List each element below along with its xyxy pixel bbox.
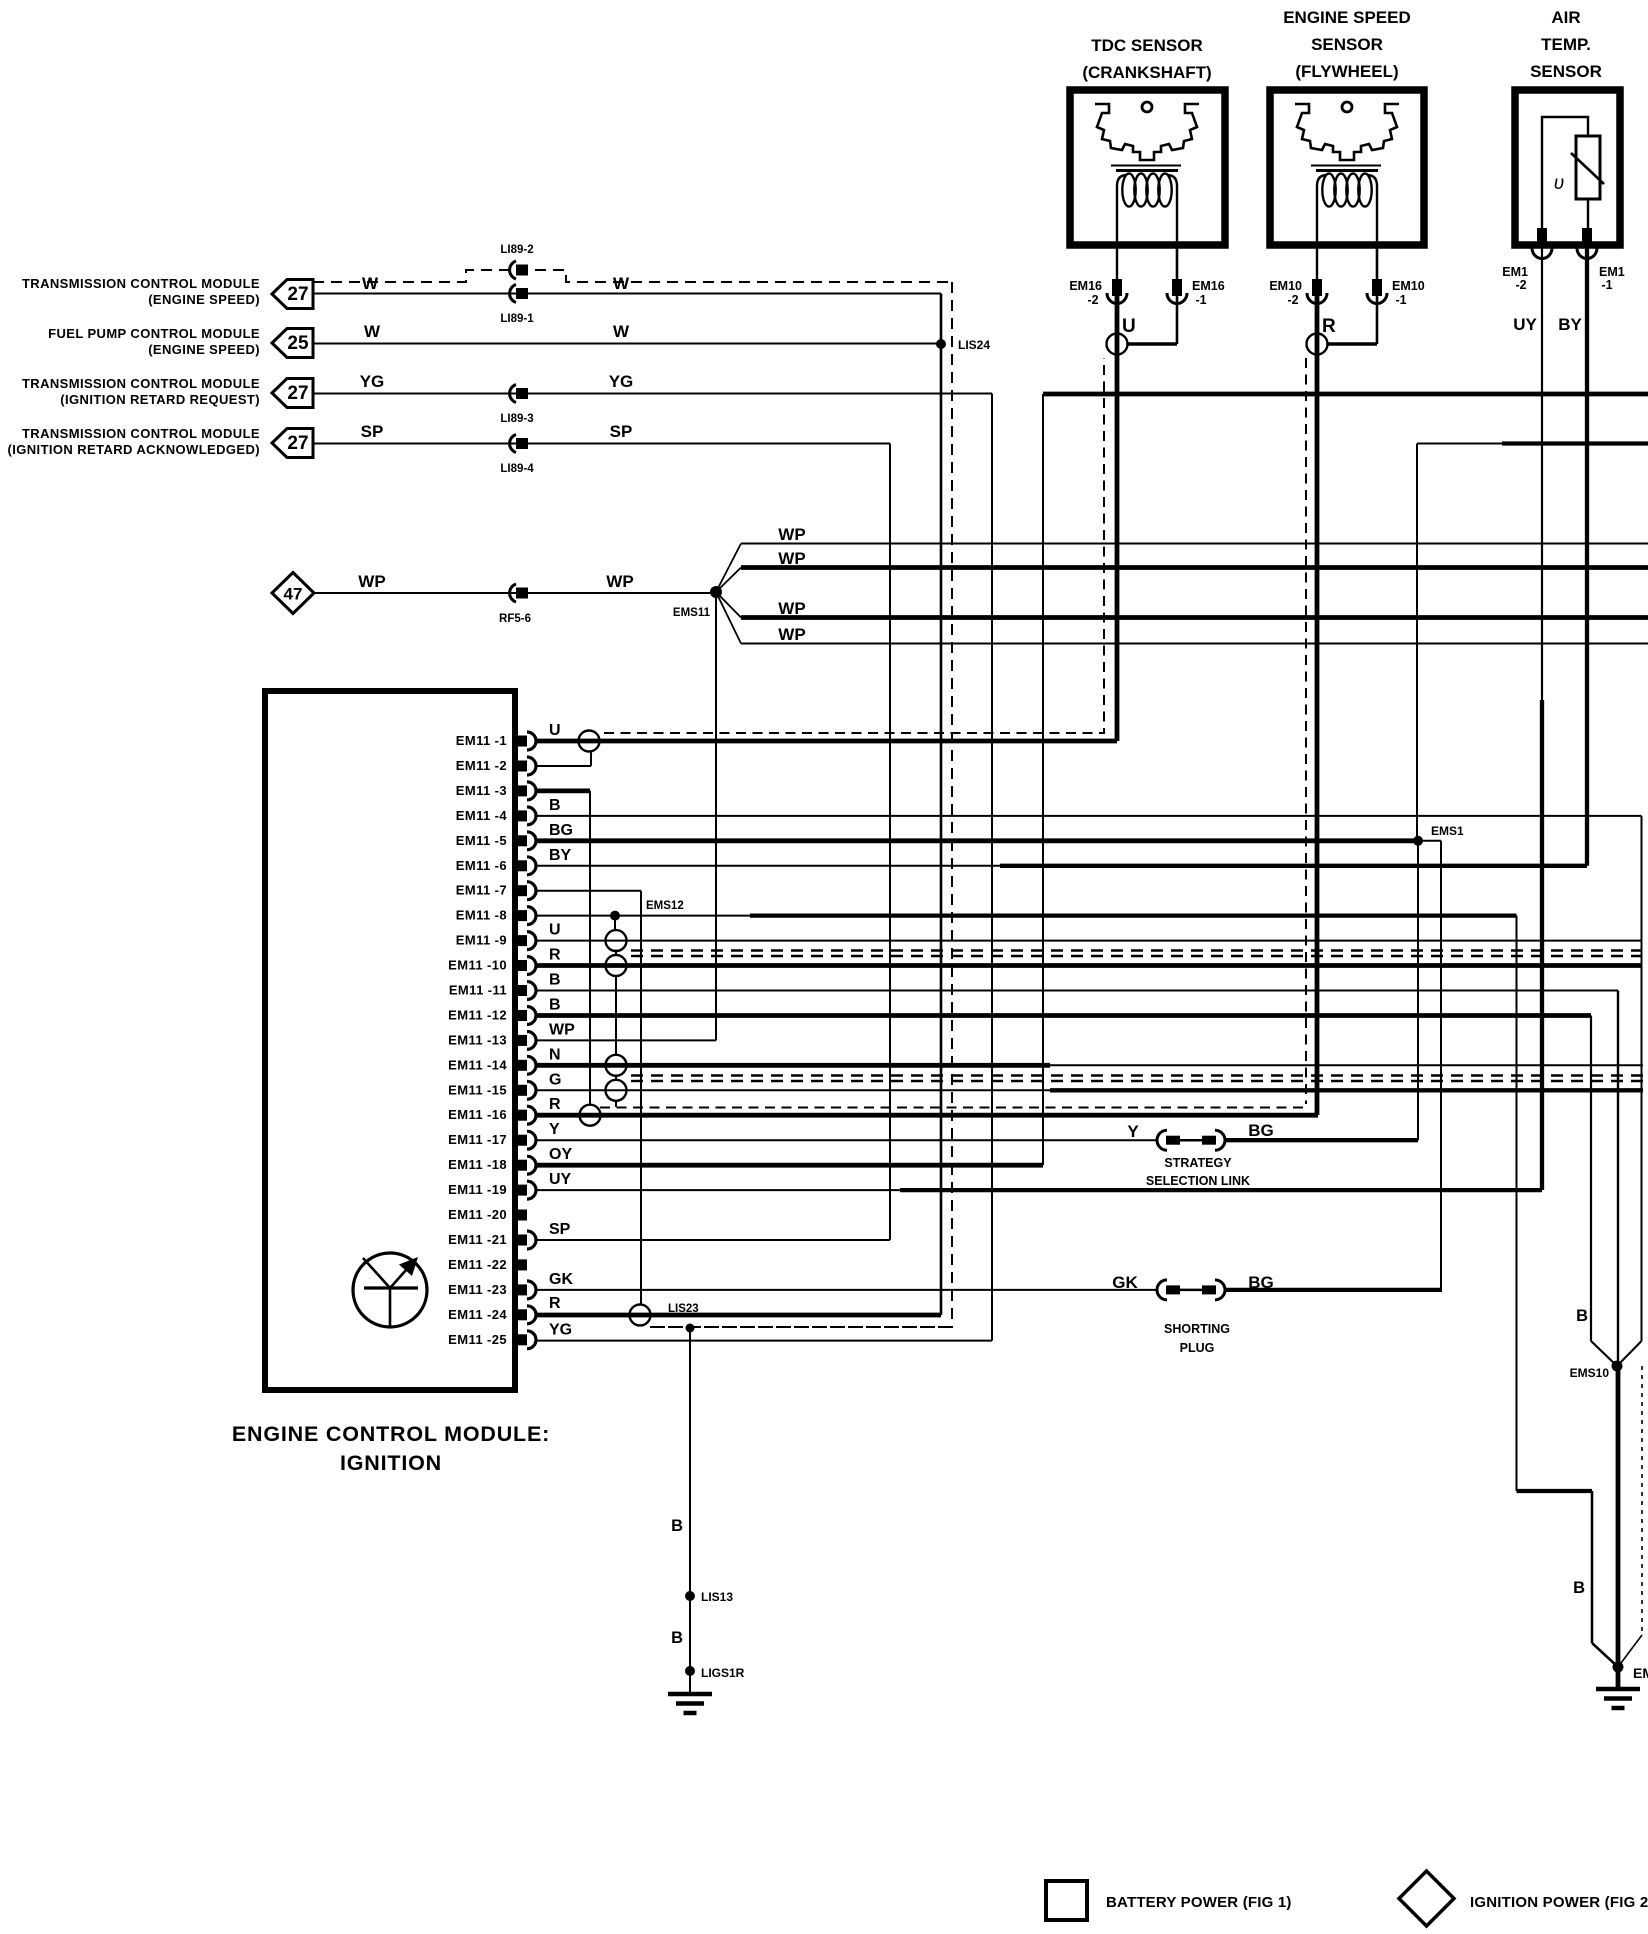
svg-text:υ: υ: [1554, 173, 1564, 194]
svg-text:EM11 -11: EM11 -11: [449, 983, 507, 998]
svg-text:LIS24: LIS24: [958, 338, 990, 352]
svg-text:TEMP.: TEMP.: [1541, 35, 1591, 54]
wire WP3 to right edge: [741, 615, 1648, 620]
wire vertical from EM11-8 down: [1516, 916, 1518, 1491]
pin EM11-2: [514, 761, 527, 772]
wire BY vertical down to EM11-6 row: [1585, 245, 1589, 866]
svg-text:W: W: [362, 274, 379, 293]
connector LI89-4: [510, 435, 516, 453]
svg-text:LI89-3: LI89-3: [500, 413, 533, 425]
wire WP2 to right edge: [741, 565, 1648, 570]
svg-text:B: B: [549, 972, 561, 989]
pin EM11-19: [514, 1185, 527, 1196]
svg-text:EM1: EM1: [1599, 265, 1625, 279]
svg-text:GK: GK: [1112, 1273, 1138, 1292]
connector LI89-2: [510, 261, 516, 279]
wire diagonal into EMS10: [1591, 1341, 1617, 1366]
wire screen dashed W vertical down to LIS23: [651, 282, 952, 1327]
pin EM11-14: [514, 1060, 527, 1071]
wire EM11-3: [536, 789, 590, 794]
wire EM11-3 vertical down to EM11-16 splice ring: [589, 791, 591, 1105]
wire TDC pin EM16-1 lead: [1176, 245, 1179, 344]
svg-text:(IGNITION RETARD ACKNOWLEDGED): (IGNITION RETARD ACKNOWLEDGED): [8, 442, 260, 457]
svg-text:RF5-6: RF5-6: [499, 613, 531, 625]
wire diagonal into bottom junction from right: [1618, 1635, 1642, 1667]
pin EM11-13: [514, 1035, 527, 1046]
svg-text:BATTERY POWER (FIG 1): BATTERY POWER (FIG 1): [1106, 1894, 1292, 1911]
svg-text:EM11 -3: EM11 -3: [456, 783, 507, 798]
pin EM11-9: [514, 935, 527, 946]
wire BG EM11-5 to EMS1: [536, 838, 1418, 843]
svg-text:EM11 -19: EM11 -19: [448, 1182, 507, 1197]
svg-text:U: U: [1122, 316, 1136, 337]
svg-text:FUEL PUMP CONTROL MODULE: FUEL PUMP CONTROL MODULE: [48, 326, 260, 341]
svg-text:UY: UY: [1513, 315, 1537, 334]
svg-text:EM11 -18: EM11 -18: [448, 1157, 507, 1172]
svg-text:Y: Y: [1127, 1122, 1139, 1141]
wire B vertical from EM11-11 down to EMS10: [1617, 991, 1619, 1367]
wire screen dashed under EM11-24: [650, 1326, 952, 1328]
svg-text:EM11 -15: EM11 -15: [448, 1082, 507, 1097]
svg-text:YG: YG: [549, 1322, 572, 1339]
svg-text:LI89-1: LI89-1: [500, 313, 534, 325]
wire EM11-2: [536, 765, 591, 767]
svg-text:EM: EM: [1633, 1665, 1648, 1681]
svg-text:EM11 -9: EM11 -9: [456, 933, 507, 948]
svg-text:EM11 -24: EM11 -24: [448, 1307, 507, 1322]
wire UY EM11-19 right part to air temp sensor: [900, 1188, 1542, 1192]
svg-text:(ENGINE SPEED): (ENGINE SPEED): [148, 342, 260, 357]
svg-text:SENSOR: SENSOR: [1530, 62, 1602, 81]
svg-text:27: 27: [287, 383, 308, 404]
wire vertical 1043 down to EM11-18 OY row: [1042, 394, 1044, 1165]
wire UY EM11-19 left part: [536, 1189, 900, 1191]
svg-text:EM16: EM16: [1192, 279, 1225, 293]
wire GK EM11-23 to shorting plug: [536, 1289, 1158, 1291]
splice ring EM11-9: [606, 930, 627, 951]
wire WP EM11-13: [536, 1039, 716, 1041]
svg-text:EMS11: EMS11: [673, 607, 711, 619]
ground symbol centre: [668, 1694, 712, 1713]
wire R EM11-10: [536, 963, 1642, 968]
svg-text:EM10: EM10: [1269, 279, 1302, 293]
pin EM11-22: [514, 1259, 527, 1270]
pin EM11-4: [514, 810, 527, 821]
svg-text:47: 47: [284, 585, 303, 604]
thermistor element: [1576, 136, 1600, 199]
svg-text:EM11 -10: EM11 -10: [448, 958, 507, 973]
svg-text:B: B: [671, 1629, 683, 1647]
svg-text:LI89-2: LI89-2: [500, 244, 533, 256]
wire Y EM11-17 to strategy link: [536, 1139, 1158, 1141]
wire EM11-7: [536, 890, 641, 892]
svg-text:-1: -1: [1195, 293, 1206, 307]
svg-text:BY: BY: [549, 847, 572, 864]
splice ring EM11-10: [606, 955, 627, 976]
pin EM11-3: [514, 785, 527, 796]
pin EM11-15: [514, 1085, 527, 1096]
svg-text:WP: WP: [358, 572, 385, 591]
svg-text:YG: YG: [360, 372, 385, 391]
pin EM11-7: [514, 885, 527, 896]
svg-text:EM11 -7: EM11 -7: [456, 883, 507, 898]
wire OY EM11-18: [536, 1163, 1043, 1168]
pin EM11-12: [514, 1010, 527, 1021]
pin EM11-6: [514, 860, 527, 871]
splice ring EM11-14: [606, 1055, 627, 1076]
svg-text:SHORTING: SHORTING: [1164, 1322, 1230, 1336]
svg-text:TRANSMISSION CONTROL MODULE: TRANSMISSION CONTROL MODULE: [22, 276, 260, 291]
pin EM11-21: [514, 1235, 527, 1246]
wire B combined down to ground: [1616, 1366, 1621, 1689]
svg-text:TRANSMISSION CONTROL MODULE: TRANSMISSION CONTROL MODULE: [22, 376, 260, 391]
wire UY vertical lower to EM11-19: [1540, 700, 1544, 1190]
svg-text:R: R: [549, 1295, 561, 1312]
connector LI89-1: [510, 285, 516, 303]
transistor symbol inside ECM: [353, 1253, 427, 1327]
svg-text:EMS10: EMS10: [1570, 1366, 1610, 1380]
svg-text:U: U: [549, 722, 561, 739]
svg-text:TRANSMISSION CONTROL MODULE: TRANSMISSION CONTROL MODULE: [22, 426, 260, 441]
svg-text:N: N: [549, 1046, 561, 1063]
strategy selection link connector: [1157, 1130, 1167, 1150]
svg-text:EM11 -12: EM11 -12: [448, 1008, 507, 1023]
svg-text:ENGINE SPEED: ENGINE SPEED: [1283, 8, 1411, 27]
svg-text:-2: -2: [1515, 278, 1526, 292]
wire R EM11-16 to engine speed sensor: [536, 1113, 1318, 1118]
svg-text:25: 25: [287, 333, 309, 354]
connector 27 TCM ignition retard request: [272, 379, 313, 408]
wire WP1 to right edge: [741, 543, 1648, 545]
svg-text:EM11 -16: EM11 -16: [448, 1107, 507, 1122]
wire B ground drop centre: [689, 1328, 691, 1694]
pin EM11-1: [514, 736, 527, 747]
splice ring EM11-1: [579, 731, 600, 752]
pin EM11-20: [514, 1210, 527, 1221]
pin EM11-24: [514, 1309, 527, 1320]
svg-text:EM11 -17: EM11 -17: [448, 1132, 507, 1147]
svg-text:B: B: [671, 1517, 683, 1535]
svg-text:(ENGINE SPEED): (ENGINE SPEED): [148, 292, 260, 307]
wire U EM11-1: [536, 739, 1117, 744]
pin EM11-17: [514, 1135, 527, 1146]
svg-text:R: R: [1322, 316, 1336, 337]
wire screen dashed above R16: [600, 1107, 1306, 1109]
svg-text:LIS13: LIS13: [701, 1590, 733, 1604]
wire BG shorting plug right: [1226, 1288, 1442, 1292]
wire WP main from connector 47: [314, 592, 716, 594]
pin EM11-8: [514, 910, 527, 921]
wire ESS pin EM10-1 lead: [1376, 245, 1379, 344]
wire B EM11-12: [536, 1013, 1591, 1018]
connector 27 TCM engine speed: [272, 280, 313, 309]
wire U from EM16-2 down to EM11-1: [1115, 296, 1120, 741]
wire screen dashed pair upper (U/R group): [631, 949, 1642, 951]
svg-text:BG: BG: [549, 822, 573, 839]
svg-text:B: B: [1573, 1579, 1585, 1597]
svg-text:WP: WP: [778, 625, 805, 644]
wire vertical EMS1 stub down to shorting BG: [1440, 841, 1442, 1290]
connector EM1-2: [1537, 228, 1547, 245]
svg-text:TDC SENSOR: TDC SENSOR: [1091, 36, 1202, 55]
svg-text:-1: -1: [1395, 293, 1406, 307]
wire EM11-7 vertical down to LIS23 ring: [640, 891, 642, 1304]
svg-text:YG: YG: [609, 372, 634, 391]
svg-text:WP: WP: [549, 1021, 575, 1038]
svg-text:WP: WP: [778, 599, 805, 618]
svg-text:EM10: EM10: [1392, 279, 1425, 293]
wire YG vertical down to EM11-25: [991, 394, 993, 1341]
pin EM11-23: [514, 1284, 527, 1295]
wire N EM11-14 left part: [536, 1063, 1050, 1068]
splice ring EM11-16: [580, 1105, 601, 1126]
svg-text:EM11 -25: EM11 -25: [448, 1332, 507, 1347]
svg-text:EM11 -8: EM11 -8: [456, 908, 507, 923]
junction EMS11: [710, 586, 722, 598]
svg-text:EMS1: EMS1: [1431, 824, 1464, 838]
ground symbol right: [1596, 1689, 1640, 1708]
svg-text:27: 27: [287, 284, 308, 305]
svg-text:-1: -1: [1601, 278, 1612, 292]
wire vertical 1592 down: [1591, 1491, 1594, 1643]
svg-text:LI89-4: LI89-4: [500, 463, 534, 475]
svg-text:EM11 -20: EM11 -20: [448, 1207, 507, 1222]
svg-text:EM11 -22: EM11 -22: [448, 1257, 507, 1272]
wire EMS1 vertical down to strategy BG: [1417, 841, 1419, 1140]
wire EM11-8 right part: [750, 913, 1517, 917]
wire SP from TCM acknowledged: [313, 443, 890, 445]
svg-text:W: W: [613, 274, 630, 293]
svg-text:EM1: EM1: [1502, 265, 1528, 279]
wire vertical down to EMS1: [1416, 444, 1418, 843]
svg-text:LIS23: LIS23: [668, 1303, 699, 1315]
svg-text:EM16: EM16: [1069, 279, 1102, 293]
wire W vertical LIS24 down to EM11-24: [940, 294, 943, 1316]
svg-text:EM11 -23: EM11 -23: [448, 1282, 507, 1297]
legend battery power square: [1046, 1881, 1087, 1920]
wire vertical right lower segment: [1641, 1366, 1643, 1635]
svg-text:PLUG: PLUG: [1180, 1341, 1215, 1355]
pin EM11-5: [514, 835, 527, 846]
wire jog right at y1491: [1517, 1489, 1593, 1493]
svg-text:SELECTION LINK: SELECTION LINK: [1146, 1174, 1250, 1188]
svg-text:SP: SP: [361, 422, 384, 441]
shorting plug connector: [1157, 1280, 1167, 1300]
svg-text:R: R: [549, 1096, 561, 1113]
wire B EM11-4: [536, 815, 1642, 817]
wire EM16-1 joining splice ring: [1127, 342, 1177, 345]
svg-text:G: G: [549, 1071, 561, 1088]
wire splice vertical pin10 to pin14: [615, 977, 617, 1055]
junction LIGS1R: [685, 1666, 695, 1676]
svg-text:GK: GK: [549, 1271, 573, 1288]
svg-text:EM11 -1: EM11 -1: [456, 733, 507, 748]
wire thermistor lower lead: [1587, 199, 1589, 228]
svg-text:EM11 -5: EM11 -5: [456, 833, 507, 848]
wire BY EM11-6 left part: [536, 865, 1000, 867]
splice ring LIS23: [630, 1305, 651, 1326]
TDC sensor (crankshaft) box: [1070, 90, 1225, 245]
wire WP4 to right edge: [741, 643, 1648, 645]
splice ring ESS wires: [1307, 334, 1328, 355]
svg-text:ENGINE CONTROL MODULE:: ENGINE CONTROL MODULE:: [232, 1422, 550, 1446]
wire WP fan diagonals: [716, 544, 741, 644]
connector RF5-6: [510, 584, 516, 602]
pin EM11-25: [514, 1334, 527, 1345]
svg-text:-2: -2: [1287, 293, 1298, 307]
wire BG stub EMS1 to 1441: [1418, 840, 1441, 842]
svg-text:IGNITION POWER (FIG 2: IGNITION POWER (FIG 2: [1470, 1894, 1648, 1911]
splice ring EM11-15: [606, 1080, 627, 1101]
wire screen dashed pair lower (U/R group): [631, 955, 1642, 957]
junction LIS24: [936, 339, 946, 349]
svg-text:B: B: [549, 797, 561, 814]
connector EM10-2: [1312, 279, 1322, 296]
junction LIS13: [685, 1591, 695, 1601]
wire screen dashed ESS vertical: [1305, 358, 1307, 1104]
connector LI89-3: [510, 385, 516, 403]
connector EM16-2: [1112, 279, 1122, 296]
wire screen dashed pair upper (N/G group): [631, 1074, 1643, 1076]
wire diagonal into bottom junction: [1592, 1643, 1618, 1667]
connector 25 fuel pump control module: [272, 329, 313, 358]
wire BY EM11-6 right part to air temp sensor: [1000, 864, 1587, 868]
junction EMS10: [1612, 1361, 1623, 1372]
wire G EM11-15 left part: [536, 1089, 1050, 1091]
svg-text:EM11 -4: EM11 -4: [456, 808, 508, 823]
engine control module: ignition box: [265, 691, 515, 1390]
wire B vertical from EM11-4 down: [1641, 816, 1643, 1341]
wire UY vertical upper: [1541, 245, 1543, 700]
wire SP EM11-21: [536, 1239, 890, 1241]
wire U EM11-9: [536, 940, 1642, 942]
svg-text:U: U: [549, 922, 561, 939]
wire diagonal into EMS10 from right: [1617, 1341, 1642, 1366]
wire BG strategy link to EMS1: [1226, 1138, 1418, 1142]
svg-text:Y: Y: [549, 1121, 560, 1138]
svg-text:EMS12: EMS12: [646, 900, 684, 912]
pin EM11-16: [514, 1110, 527, 1121]
wire EM10-1 joining splice ring: [1327, 342, 1377, 345]
connector 47 ignition power diamond: [272, 573, 314, 614]
svg-text:27: 27: [287, 433, 308, 454]
wire splice ring pin15 to screen dashed: [615, 1101, 617, 1108]
engine speed sensor (flywheel) box: [1270, 90, 1424, 245]
svg-text:SP: SP: [610, 422, 633, 441]
svg-text:-2: -2: [1087, 293, 1098, 307]
wire WP vertical EMS11 down to EM11-13: [715, 598, 717, 1040]
wire B vertical from EM11-12 down: [1590, 1016, 1592, 1342]
wire R from EM10-2 down to EM11-16: [1315, 296, 1320, 1115]
svg-text:EM11 -6: EM11 -6: [456, 858, 507, 873]
connector EM16-1: [1172, 279, 1182, 296]
wire TDC pin EM16-2 lead: [1116, 245, 1118, 279]
wire B EM11-11: [536, 990, 1618, 992]
wire N EM11-14 right part: [1050, 1064, 1643, 1066]
splice ring TDC sensor wires: [1107, 334, 1128, 355]
svg-text:EM11 -13: EM11 -13: [448, 1032, 507, 1047]
pin EM11-11: [514, 985, 527, 996]
engine speed sensor gear/coil icon: [1295, 102, 1399, 245]
svg-text:WP: WP: [606, 572, 633, 591]
svg-text:(FLYWHEEL): (FLYWHEEL): [1295, 62, 1398, 81]
svg-text:BY: BY: [1558, 315, 1582, 334]
wire YG EM11-25: [536, 1340, 992, 1342]
wire to right edge y443 right part: [1502, 441, 1648, 445]
svg-text:BG: BG: [1248, 1121, 1274, 1140]
svg-text:W: W: [364, 322, 381, 341]
air temp sensor box: [1515, 90, 1620, 245]
wire EM11-8 left part: [536, 915, 750, 917]
svg-text:AIR: AIR: [1551, 8, 1580, 27]
svg-text:(CRANKSHAFT): (CRANKSHAFT): [1082, 63, 1211, 82]
svg-text:SP: SP: [549, 1221, 571, 1238]
thermistor diagonal stroke: [1571, 153, 1604, 184]
wire W solid row1 to LIS24 vertical: [313, 293, 941, 295]
svg-text:WP: WP: [778, 525, 805, 544]
svg-text:EM11 -21: EM11 -21: [448, 1232, 507, 1247]
wire screen dashed pair lower (N/G group): [631, 1080, 1643, 1082]
TDC sensor gear/coil icon: [1095, 102, 1199, 245]
wire splice stub ring9 to ring10: [615, 950, 617, 957]
svg-text:B: B: [549, 997, 561, 1014]
wire to right edge y443 left part: [1417, 443, 1502, 445]
wire YG from TCM request: [313, 393, 992, 395]
svg-text:STRATEGY: STRATEGY: [1164, 1156, 1232, 1170]
svg-text:R: R: [549, 947, 561, 964]
svg-text:B: B: [1576, 1307, 1588, 1325]
svg-text:UY: UY: [549, 1171, 572, 1188]
wire G EM11-15 right part: [1050, 1088, 1643, 1092]
wire screen dashed above U to TDC: [604, 358, 1104, 733]
wire R EM11-24 to LIS24 vertical: [536, 1313, 941, 1318]
junction screen to ground drop: [686, 1324, 695, 1333]
pin EM11-10: [514, 960, 527, 971]
pin EM11-18: [514, 1160, 527, 1171]
wire SP vertical down to EM11-21: [889, 444, 891, 1241]
connector EM1-1: [1582, 228, 1592, 245]
connector EM10-1: [1372, 279, 1382, 296]
svg-text:OY: OY: [549, 1146, 572, 1163]
svg-text:IGNITION: IGNITION: [340, 1451, 442, 1475]
wire W from fuel pump CM to LIS24: [313, 343, 941, 345]
svg-text:W: W: [613, 322, 630, 341]
wire splice stub ring14 to ring15: [615, 1075, 617, 1082]
connector 27 TCM ignition retard acknowledged: [272, 429, 313, 458]
junction bottom ground: [1613, 1662, 1624, 1673]
svg-text:LIGS1R: LIGS1R: [701, 1666, 745, 1680]
wire ESS pin EM10-2 lead: [1316, 245, 1318, 279]
wire EM11-2 vertical to splice ring: [590, 752, 592, 767]
wire EMS12 junction to splice ring pin9: [614, 916, 616, 929]
junction EMS12: [610, 911, 620, 921]
svg-text:SENSOR: SENSOR: [1311, 35, 1383, 54]
junction EMS1: [1413, 836, 1423, 846]
thermistor circuit inside air temp sensor: [1542, 117, 1588, 228]
svg-text:EM11 -14: EM11 -14: [448, 1057, 507, 1072]
svg-text:EM11 -2: EM11 -2: [456, 758, 507, 773]
svg-text:(IGNITION RETARD REQUEST): (IGNITION RETARD REQUEST): [60, 392, 260, 407]
legend ignition power diamond: [1399, 1871, 1454, 1926]
wire W dashed from TCM via LI89-2: [313, 270, 952, 282]
wire heavy to right edge y394: [1043, 392, 1648, 397]
svg-text:WP: WP: [778, 549, 805, 568]
